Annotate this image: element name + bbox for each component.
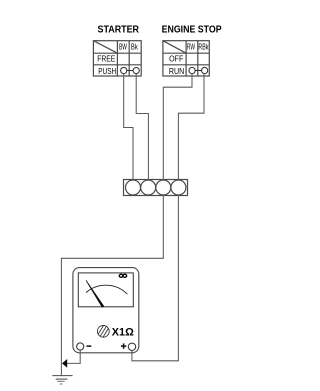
contact circles S2 RUN row [189, 67, 208, 73]
connector block [124, 180, 188, 196]
meter display window [78, 273, 133, 307]
svg-text:RUN: RUN [169, 66, 184, 76]
infinity mark [119, 274, 127, 277]
svg-text:PUSH: PUSH [98, 66, 116, 76]
plus terminal [128, 343, 135, 350]
wire pin4 to meter plus terminal [132, 196, 179, 361]
plus sign [121, 343, 126, 348]
wire BW to connector pin1 [124, 74, 133, 180]
svg-text:ENGINE STOP: ENGINE STOP [162, 25, 222, 36]
svg-text:BW: BW [119, 43, 127, 52]
wire Bk to connector pin2 [136, 74, 148, 180]
wire pin3 to ground rail [61, 196, 163, 376]
contact circles S1 PUSH row [121, 67, 140, 73]
svg-text:RW: RW [187, 43, 195, 52]
meter scale arc [86, 285, 127, 294]
svg-text:RBk: RBk [198, 43, 209, 52]
ground symbol [52, 376, 72, 384]
svg-text:Bk: Bk [131, 43, 139, 52]
switch table S2 ENGINE STOP [163, 41, 209, 76]
svg-text:OFF: OFF [169, 54, 183, 64]
minus sign [87, 345, 92, 347]
probe arrow [62, 359, 67, 368]
wire RBk to connector pin4 [178, 74, 204, 180]
switch table S1 STARTER [93, 41, 141, 76]
multimeter body [73, 268, 139, 353]
range dial [97, 325, 109, 337]
svg-text:X1Ω: X1Ω [112, 327, 134, 339]
wire RW to connector pin3 [163, 74, 192, 180]
svg-text:STARTER: STARTER [98, 25, 140, 36]
wire minus terminal to ground rail [67, 350, 80, 363]
minus terminal [77, 343, 84, 350]
svg-text:FREE: FREE [97, 54, 115, 64]
meter needle [86, 280, 105, 308]
